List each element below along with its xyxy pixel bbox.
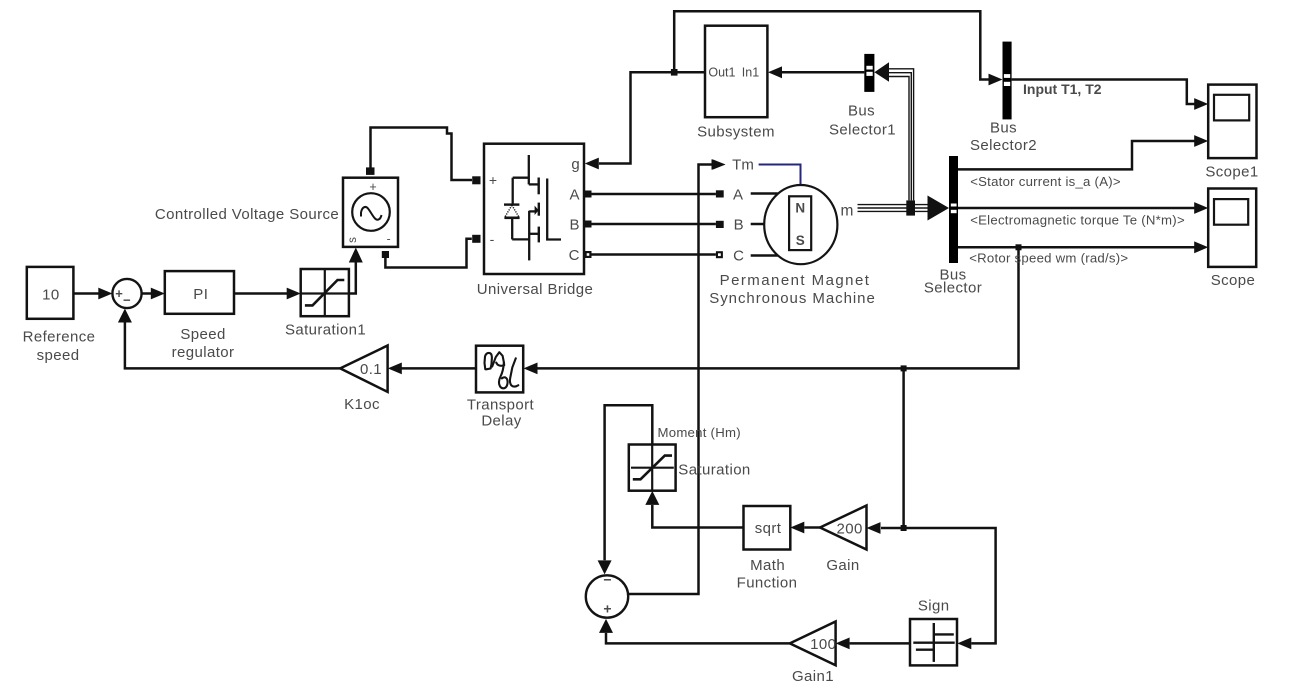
- svg-text:Moment (Hm): Moment (Hm): [658, 425, 741, 440]
- svg-text:+: +: [489, 172, 497, 188]
- svg-text:S: S: [796, 233, 805, 248]
- svg-text:Math: Math: [750, 557, 785, 574]
- svg-text:Bus: Bus: [848, 102, 875, 119]
- svg-text:Speed: Speed: [180, 326, 225, 343]
- svg-text:+: +: [369, 180, 376, 194]
- svg-text:Bus: Bus: [990, 119, 1017, 136]
- svg-text:Saturation: Saturation: [678, 461, 750, 478]
- svg-text:Input T1, T2: Input T1, T2: [1023, 81, 1102, 97]
- svg-text:Universal Bridge: Universal Bridge: [477, 281, 593, 298]
- svg-text:Selector1: Selector1: [829, 121, 896, 138]
- svg-text:sqrt: sqrt: [755, 520, 782, 537]
- svg-text:Selector: Selector: [924, 279, 982, 296]
- svg-text:<Electromagnetic torque Te (N*: <Electromagnetic torque Te (N*m)>: [970, 212, 1185, 227]
- svg-text:10: 10: [42, 287, 60, 304]
- svg-text:PI: PI: [193, 286, 208, 303]
- svg-text:B: B: [569, 216, 579, 233]
- svg-text:−: −: [123, 293, 131, 308]
- svg-text:Synchronous Machine: Synchronous Machine: [709, 290, 875, 307]
- svg-text:C: C: [569, 247, 580, 264]
- svg-text:A: A: [569, 186, 579, 203]
- svg-text:Function: Function: [737, 575, 798, 592]
- svg-text:Saturation1: Saturation1: [285, 322, 366, 339]
- svg-text:Tm: Tm: [732, 156, 754, 173]
- svg-text:<Rotor speed wm (rad/s)>: <Rotor speed wm (rad/s)>: [969, 250, 1128, 265]
- svg-text:Sign: Sign: [918, 598, 950, 615]
- svg-text:Transport: Transport: [467, 396, 535, 413]
- svg-text:Controlled Voltage Source: Controlled Voltage Source: [155, 206, 339, 223]
- svg-text:g: g: [571, 156, 579, 173]
- svg-text:Subsystem: Subsystem: [697, 124, 775, 141]
- svg-text:s: s: [347, 237, 359, 243]
- svg-text:A: A: [733, 186, 743, 203]
- svg-text:200: 200: [836, 521, 862, 538]
- svg-text:K1oc: K1oc: [344, 396, 380, 413]
- svg-text:In1: In1: [742, 65, 759, 79]
- svg-text:Gain: Gain: [826, 557, 859, 574]
- svg-text:100: 100: [810, 636, 836, 653]
- svg-text:Reference: Reference: [23, 329, 96, 346]
- svg-text:-: -: [387, 232, 391, 246]
- svg-text:Out1: Out1: [708, 65, 735, 79]
- svg-text:Gain1: Gain1: [792, 668, 834, 685]
- svg-text:+: +: [603, 601, 611, 617]
- svg-text:C: C: [733, 247, 744, 264]
- svg-text:Delay: Delay: [481, 412, 521, 429]
- svg-text:B: B: [734, 217, 744, 234]
- svg-text:m: m: [841, 203, 854, 220]
- svg-text:Scope1: Scope1: [1205, 164, 1258, 181]
- svg-text:-: -: [490, 231, 495, 247]
- svg-text:regulator: regulator: [172, 344, 235, 361]
- svg-text:N: N: [795, 201, 805, 216]
- svg-text:speed: speed: [37, 347, 80, 364]
- svg-text:Permanent Magnet: Permanent Magnet: [720, 272, 871, 289]
- svg-text:−: −: [603, 572, 611, 588]
- svg-text:Scope: Scope: [1211, 272, 1256, 289]
- svg-text:Selector2: Selector2: [970, 137, 1037, 154]
- svg-text:<Stator current is_a (A)>: <Stator current is_a (A)>: [970, 174, 1121, 189]
- svg-text:+: +: [115, 286, 123, 301]
- svg-text:0.1: 0.1: [360, 361, 382, 378]
